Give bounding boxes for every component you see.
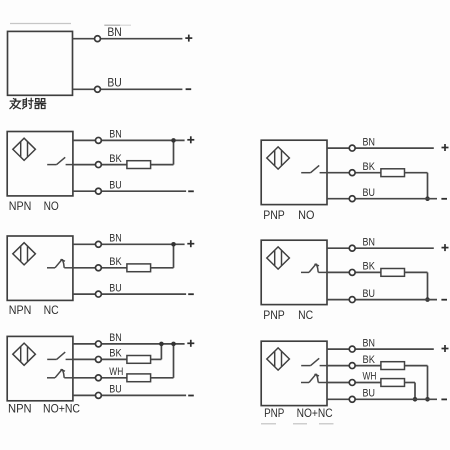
junction dot BK-BN (NPN NC) [171, 242, 176, 247]
svg-text:BK: BK [363, 161, 376, 173]
svg-text:BN: BN [109, 332, 121, 344]
terminal circle WH (NPN NO+NC) [95, 375, 101, 381]
svg-text:NO: NO [298, 210, 314, 222]
load resistor on WH (NPN NO+NC) [127, 374, 151, 382]
svg-text:BU: BU [109, 282, 121, 294]
svg-text:BU: BU [363, 288, 375, 300]
svg-text:PNP: PNP [264, 408, 285, 420]
svg-text:BK: BK [109, 153, 122, 165]
sensor box NPN NO [7, 132, 73, 196]
terminal circle BN (NPN NC) [95, 241, 101, 247]
terminal circle BK (NPN NO) [95, 162, 101, 168]
switch NO contact (PNP NO) [301, 165, 327, 172]
terminal + (transmitter) [185, 35, 192, 42]
terminal circle BU (PNP NO) [349, 196, 355, 202]
junction dot WH-BU (PNP NO+NC) [413, 397, 418, 402]
svg-text:BN: BN [363, 136, 375, 148]
terminal circle BK (PNP NO) [349, 170, 355, 176]
wire BN (PNP NO+NC) [327, 348, 434, 350]
wire BU (PNP NO) [327, 198, 437, 200]
terminal + (PNP NO+NC) [442, 345, 449, 352]
svg-text:WH: WH [109, 366, 123, 378]
terminal circle WH (PNP NO+NC) [349, 380, 355, 386]
wire BK to riser (PNP NO) [405, 172, 428, 174]
riser wire BK-BU (PNP NO) [427, 173, 429, 199]
transmitter box U1 (发射器) [8, 31, 73, 95]
wire BK (PNP NO+NC) [327, 365, 381, 367]
proximity sensor symbol (PNP NO+NC) [267, 348, 290, 370]
wire BN (NPN NO) [73, 139, 185, 141]
terminal - (transmitter) [186, 88, 192, 90]
switch NC contact (NPN NC) [47, 259, 73, 268]
svg-text:BK: BK [363, 354, 376, 366]
terminal circle BN (transmitter) [95, 36, 101, 42]
terminal circle BU (PNP NC) [349, 297, 355, 303]
load resistor on BK (NPN NO) [127, 161, 151, 169]
switch NC contact (PNP NC) [301, 264, 327, 273]
sensor box PNP NO+NC [261, 341, 327, 405]
terminal circle BN (PNP NO+NC) [349, 346, 355, 352]
terminal + (NPN NC) [187, 240, 194, 247]
svg-text:BU: BU [363, 388, 375, 400]
svg-text:BK: BK [109, 256, 122, 268]
svg-text:BK: BK [363, 261, 376, 273]
terminal circle BN (NPN NO) [95, 137, 101, 143]
wire BK (NPN NC) [73, 267, 127, 269]
load resistor on WH (PNP NO+NC) [381, 379, 405, 387]
wire BK (NPN NO) [73, 164, 127, 166]
terminal circle BK (PNP NO+NC) [349, 363, 355, 369]
terminal circle BU (PNP NO+NC) [349, 396, 355, 402]
wire BU (transmitter -) [73, 88, 183, 90]
load resistor on BK (NPN NC) [127, 264, 151, 272]
proximity sensor symbol (PNP NO) [267, 147, 290, 169]
svg-text:BN: BN [363, 337, 375, 349]
junction dot BK-BN (NPN NO+NC) [159, 342, 164, 347]
terminal - (PNP NC) [441, 299, 447, 301]
proximity sensor symbol (NPN NO+NC) [13, 343, 36, 365]
switch NC contact (NPN NO+NC) [47, 369, 73, 378]
terminal circle BU (NPN NO+NC) [95, 392, 101, 398]
wire BK (NPN NO+NC) [73, 358, 127, 360]
terminal circle BU (NPN NC) [95, 291, 101, 297]
terminal circle BU (NPN NO) [95, 188, 101, 194]
svg-text:NPN: NPN [9, 201, 32, 213]
sensor box NPN NC [7, 236, 73, 300]
svg-text:BU: BU [109, 384, 121, 396]
wire BU (NPN NC) [73, 293, 186, 295]
riser wire WH-BN (NPN NO+NC) [173, 344, 175, 378]
svg-text:PNP: PNP [263, 310, 285, 322]
terminal circle BK (PNP NC) [349, 269, 355, 275]
svg-text:BU: BU [109, 179, 121, 191]
svg-text:NO+NC: NO+NC [297, 408, 333, 420]
wire BK to riser (PNP NO+NC) [405, 365, 428, 367]
switch NO contact (NPN NO) [47, 157, 73, 164]
proximity sensor symbol (NPN NO) [13, 138, 36, 160]
faint overline artifact above BN label [104, 24, 120, 26]
wire BN (PNP NO) [327, 147, 434, 149]
wire BU (NPN NO) [73, 190, 186, 192]
terminal - (NPN NO) [188, 190, 194, 192]
terminal circle BN (NPN NO+NC) [95, 341, 101, 347]
svg-text:NO+NC: NO+NC [43, 404, 80, 416]
terminal + (NPN NO) [187, 136, 194, 143]
riser wire BK-BU (PNP NO+NC) [427, 366, 429, 400]
terminal + (PNP NC) [442, 244, 449, 251]
wire BK to riser (NPN NC) [151, 267, 174, 269]
terminal circle BU (transmitter) [95, 86, 101, 92]
svg-text:BN: BN [363, 236, 375, 248]
svg-text:WH: WH [363, 371, 377, 383]
wire BU (PNP NO+NC) [327, 398, 437, 400]
terminal circle BK (NPN NO+NC) [95, 356, 101, 362]
wire WH (NPN NO+NC) [73, 377, 127, 379]
junction dot BK-BN (NPN NO) [171, 138, 176, 143]
faint artifact line above transmitter box [10, 23, 71, 25]
wire WH to riser (NPN NO+NC) [151, 377, 174, 379]
wire BK to riser (NPN NO+NC) [151, 358, 162, 360]
wire BU (PNP NC) [327, 299, 437, 301]
wire BK (PNP NO) [327, 172, 381, 174]
load resistor on BK (PNP NO+NC) [381, 362, 405, 370]
terminal circle BN (PNP NC) [349, 245, 355, 251]
junction dot BK-BU (PNP NC) [425, 297, 430, 302]
svg-text:BK: BK [109, 348, 122, 360]
terminal circle BK (NPN NC) [95, 265, 101, 271]
load resistor on BK (PNP NC) [381, 269, 405, 277]
terminal circle BN (PNP NO) [349, 145, 355, 151]
svg-text:NC: NC [44, 305, 59, 317]
wire BK to riser (PNP NC) [405, 271, 428, 273]
riser wire WH-BU (PNP NO+NC) [414, 383, 416, 400]
riser wire BK-BN (NPN NC) [173, 244, 175, 267]
svg-text:BN: BN [109, 233, 121, 245]
terminal - (PNP NO) [441, 198, 447, 200]
sensor box NPN NO+NC [7, 336, 73, 400]
wire BN (NPN NO+NC) [73, 343, 185, 345]
wire BU (NPN NO+NC) [73, 394, 186, 396]
wire BK to riser (NPN NO) [151, 164, 174, 166]
junction dot BK-BU (PNP NO) [425, 196, 430, 201]
proximity sensor symbol (NPN NC) [13, 243, 36, 265]
svg-text:NPN: NPN [8, 404, 32, 416]
faint underline artifacts below PNP NO+NC caption [261, 423, 334, 425]
wire WH to riser (PNP NO+NC) [405, 382, 416, 384]
wire BK (PNP NC) [327, 271, 381, 273]
svg-text:NPN: NPN [9, 305, 32, 317]
svg-text:BN: BN [107, 25, 121, 39]
switch NC contact (PNP NO+NC) [301, 374, 327, 383]
svg-text:NC: NC [298, 310, 313, 322]
riser wire BK-BU (PNP NC) [427, 272, 429, 299]
load resistor on BK (NPN NO+NC) [127, 356, 151, 364]
switch NO contact (NPN NO+NC) [47, 352, 73, 359]
label 发射器 (transmitter) drawn as strokes [10, 98, 46, 109]
sensor box PNP NC [261, 240, 327, 304]
terminal + (NPN NO+NC) [187, 340, 194, 347]
load resistor on BK (PNP NO) [381, 169, 405, 177]
riser wire BK-BN (NPN NO+NC) [160, 344, 162, 360]
wire BN (transmitter +) [73, 38, 183, 40]
terminal - (NPN NO+NC) [188, 395, 194, 397]
riser wire BK-BN (NPN NO) [173, 140, 175, 164]
sensor box PNP NO [261, 140, 327, 204]
wire BN (NPN NC) [73, 243, 185, 245]
svg-text:BU: BU [107, 76, 121, 90]
svg-text:BU: BU [363, 187, 375, 199]
wire WH (PNP NO+NC) [327, 382, 381, 384]
svg-text:BN: BN [109, 129, 121, 141]
svg-text:NO: NO [44, 201, 59, 213]
wire BN (PNP NC) [327, 247, 434, 249]
junction dot WH-BN (NPN NO+NC) [171, 342, 176, 347]
terminal - (NPN NC) [188, 293, 194, 295]
terminal + (PNP NO) [442, 144, 449, 151]
junction dot BK-BU (PNP NO+NC) [425, 397, 430, 402]
switch NO contact (PNP NO+NC) [301, 358, 327, 365]
terminal - (PNP NO+NC) [441, 398, 447, 400]
proximity sensor symbol (PNP NC) [267, 247, 290, 269]
svg-text:PNP: PNP [263, 210, 285, 222]
